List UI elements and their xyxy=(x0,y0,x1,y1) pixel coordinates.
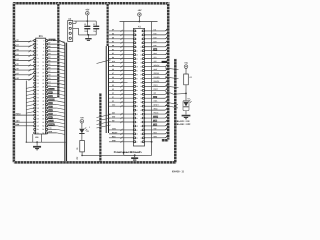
svg-text:34: 34 xyxy=(42,97,44,99)
svg-text:CSEL: CSEL xyxy=(153,100,157,102)
K1 lower left wires with labels xyxy=(15,114,34,127)
svg-text:39: 39 xyxy=(136,106,138,108)
svg-text:37: 37 xyxy=(136,102,138,104)
svg-text:D3: D3 xyxy=(112,33,114,35)
svg-text:25: 25 xyxy=(37,83,39,85)
wires crossing right walls lower xyxy=(165,102,178,108)
svg-text:34: 34 xyxy=(140,94,142,96)
svg-text:IOW: IOW xyxy=(16,124,20,126)
svg-text:2: 2 xyxy=(43,40,44,42)
svg-text:7: 7 xyxy=(136,42,137,44)
svg-text:B5: B5 xyxy=(48,50,50,52)
K1 right active-low labels xyxy=(48,88,55,127)
svg-text:46: 46 xyxy=(140,118,142,120)
svg-text:36: 36 xyxy=(42,101,44,103)
K2 pin circles xyxy=(69,22,71,39)
svg-text:100n: 100n xyxy=(84,31,88,33)
+5V supply symbol LED2 xyxy=(184,63,188,74)
K1 right pin circles xyxy=(46,40,48,134)
svg-text:26: 26 xyxy=(140,78,142,80)
svg-text:C3: C3 xyxy=(48,85,50,87)
svg-text:18: 18 xyxy=(140,62,142,64)
figure number xyxy=(172,170,185,173)
svg-text:BLACK = ON: BLACK = ON xyxy=(177,120,190,123)
svg-text:24: 24 xyxy=(140,74,142,76)
svg-text:8: 8 xyxy=(141,42,142,44)
svg-text:48: 48 xyxy=(140,122,142,124)
CF right active-low labels xyxy=(153,48,167,126)
svg-text:B3: B3 xyxy=(48,57,50,59)
svg-text:54: 54 xyxy=(140,134,142,136)
svg-text:WE: WE xyxy=(112,120,115,122)
svg-text:35: 35 xyxy=(136,98,138,100)
capacitor C1 xyxy=(84,21,90,35)
enclosure frame right outer edge xyxy=(174,59,177,163)
svg-text:+5V: +5V xyxy=(80,117,84,119)
K1 pin numbers xyxy=(37,40,44,134)
svg-text:31: 31 xyxy=(37,94,39,96)
connector K2 body xyxy=(68,20,73,41)
svg-text:D5: D5 xyxy=(112,37,114,39)
connector K1 label xyxy=(39,34,44,38)
svg-text:58: 58 xyxy=(140,141,142,143)
svg-text:15: 15 xyxy=(37,65,39,67)
svg-text:19: 19 xyxy=(37,72,39,74)
svg-text:C6: C6 xyxy=(48,74,50,76)
svg-text:B4: B4 xyxy=(48,52,50,55)
svg-text:A0: A0 xyxy=(16,39,18,42)
svg-text:5: 5 xyxy=(37,47,38,49)
svg-text:14: 14 xyxy=(42,62,44,64)
svg-text:49: 49 xyxy=(37,125,39,127)
K1 ground rail under body xyxy=(26,134,66,143)
svg-text:B1: B1 xyxy=(48,64,50,66)
ground return wire xyxy=(82,154,124,156)
svg-text:D7: D7 xyxy=(112,53,114,55)
svg-text:VS2: VS2 xyxy=(154,61,157,63)
svg-text:40: 40 xyxy=(42,108,44,110)
svg-text:17: 17 xyxy=(136,62,138,64)
svg-text:CS0: CS0 xyxy=(112,105,115,107)
svg-text:R2: R2 xyxy=(190,77,192,79)
svg-text:B0: B0 xyxy=(48,67,50,69)
capacitor C2 xyxy=(93,21,99,35)
svg-text:+5V: +5V xyxy=(85,9,89,11)
screen wall between IC1 and bus xyxy=(57,3,59,97)
svg-text:45: 45 xyxy=(136,118,138,120)
resistor R1 value xyxy=(77,157,79,160)
svg-text:30: 30 xyxy=(140,86,142,88)
svg-text:45: 45 xyxy=(37,118,39,120)
svg-text:A5: A5 xyxy=(16,63,18,66)
svg-text:+5V: +5V xyxy=(184,63,188,65)
svg-text:13: 13 xyxy=(136,54,138,56)
svg-text:RDY: RDY xyxy=(154,97,157,99)
LED2 note text xyxy=(177,120,191,126)
svg-text:21: 21 xyxy=(37,76,39,78)
svg-text:28: 28 xyxy=(140,82,142,84)
svg-text:41: 41 xyxy=(37,111,39,113)
svg-text:CS0: CS0 xyxy=(49,113,52,115)
svg-text:44: 44 xyxy=(42,115,44,117)
svg-text:22: 22 xyxy=(42,76,44,78)
svg-text:31: 31 xyxy=(136,90,138,92)
CF right signal wires with labels xyxy=(145,29,167,142)
svg-text:6: 6 xyxy=(141,39,142,41)
svg-text:B6: B6 xyxy=(48,46,50,48)
svg-text:D6: D6 xyxy=(112,45,114,47)
enclosure frame left edge xyxy=(13,3,16,162)
screen wall middle divider xyxy=(106,3,108,133)
enclosure frame right inner edge xyxy=(167,3,170,139)
svg-text:16: 16 xyxy=(140,58,142,60)
svg-text:4: 4 xyxy=(141,35,142,37)
svg-text:11: 11 xyxy=(136,50,138,52)
svg-text:D1: D1 xyxy=(87,131,89,133)
svg-text:RESET: RESET xyxy=(153,104,158,106)
CF right pin circles xyxy=(142,30,144,143)
svg-text:11: 11 xyxy=(37,58,39,60)
K1 part label under body xyxy=(35,137,39,139)
svg-text:42: 42 xyxy=(140,110,142,112)
svg-text:CS1: CS1 xyxy=(49,117,52,119)
svg-text:41: 41 xyxy=(136,110,138,112)
svg-text:CD2: CD2 xyxy=(153,132,156,134)
svg-text:40: 40 xyxy=(140,106,142,108)
svg-text:D0: D0 xyxy=(112,57,114,59)
LED D2 xyxy=(183,93,192,114)
CompactFlash connector label xyxy=(138,26,142,28)
resistor R1 xyxy=(77,140,85,156)
svg-text:3: 3 xyxy=(37,44,38,46)
svg-text:D1: D1 xyxy=(112,49,114,51)
svg-text:47: 47 xyxy=(37,122,39,124)
svg-text:RESET: RESET xyxy=(112,132,117,134)
svg-text:56: 56 xyxy=(140,138,142,140)
svg-text:53: 53 xyxy=(136,134,138,136)
svg-text:C1: C1 xyxy=(84,24,86,26)
svg-text:A6: A6 xyxy=(16,67,18,70)
svg-text:32: 32 xyxy=(140,90,142,92)
svg-text:D2: D2 xyxy=(112,41,114,43)
svg-text:13: 13 xyxy=(37,62,39,64)
svg-text:48: 48 xyxy=(42,122,44,124)
svg-text:50: 50 xyxy=(140,126,142,128)
svg-text:49: 49 xyxy=(136,126,138,128)
+5V supply symbol CompactFlash xyxy=(137,10,141,22)
svg-text:7: 7 xyxy=(37,51,38,53)
svg-text:16: 16 xyxy=(42,65,44,67)
svg-text:a: a xyxy=(89,126,90,128)
screen wall lower middle xyxy=(99,93,101,162)
net label middle xyxy=(89,126,90,128)
svg-text:6: 6 xyxy=(43,47,44,49)
svg-text:TX0: TX0 xyxy=(48,128,51,130)
resistor R2 xyxy=(184,74,192,93)
svg-text:54: 54 xyxy=(42,133,44,135)
CF pin numbers xyxy=(136,31,142,144)
signal wire to LED2 xyxy=(165,92,187,95)
svg-text:39: 39 xyxy=(37,108,39,110)
+5V supply symbol LED1 xyxy=(80,117,84,128)
svg-text:26: 26 xyxy=(42,83,44,85)
wires crossing lower middle divider xyxy=(96,114,110,128)
svg-text:23: 23 xyxy=(136,74,138,76)
CF card ground xyxy=(131,154,138,160)
wires crossing right walls xyxy=(165,68,179,88)
svg-text:POK0: POK0 xyxy=(16,114,21,116)
svg-text:D11: D11 xyxy=(154,29,157,31)
svg-text:A1: A1 xyxy=(16,43,18,46)
svg-text:1: 1 xyxy=(37,40,38,42)
connector K1 PC-side body xyxy=(36,38,46,134)
K1 right wires into bus trunk xyxy=(47,42,64,134)
enclosure frame top edge xyxy=(13,2,170,5)
ground symbol under LED2 xyxy=(182,115,191,120)
svg-text:VS1: VS1 xyxy=(154,57,157,59)
svg-text:CD2: CD2 xyxy=(154,53,157,55)
svg-text:52: 52 xyxy=(140,130,142,132)
svg-text:29: 29 xyxy=(37,90,39,92)
bus trunk left (double line) xyxy=(58,40,66,161)
CF card outline right edge junction xyxy=(151,141,153,143)
svg-text:22: 22 xyxy=(140,70,142,72)
svg-text:36: 36 xyxy=(140,98,142,100)
svg-text:42: 42 xyxy=(42,111,44,113)
svg-text:35: 35 xyxy=(37,101,39,103)
svg-text:10: 10 xyxy=(140,46,142,48)
ground symbol under K1 xyxy=(33,142,41,150)
svg-text:BVD1: BVD1 xyxy=(154,85,158,87)
svg-text:C4: C4 xyxy=(48,80,50,83)
svg-text:24: 24 xyxy=(42,79,44,81)
svg-text:CD1: CD1 xyxy=(154,49,157,51)
svg-text:17: 17 xyxy=(37,69,39,71)
svg-text:A4: A4 xyxy=(16,58,18,61)
svg-text:10u: 10u xyxy=(93,31,96,33)
svg-text:WP: WP xyxy=(153,93,156,95)
svg-text:R1: R1 xyxy=(77,147,79,149)
svg-text:IC1: IC1 xyxy=(39,34,44,38)
svg-text:47: 47 xyxy=(136,122,138,124)
svg-text:50: 50 xyxy=(42,125,44,127)
connector K2 label xyxy=(68,19,72,21)
svg-text:10: 10 xyxy=(42,54,44,56)
svg-text:B2: B2 xyxy=(48,60,50,62)
svg-text:IOW: IOW xyxy=(112,116,116,118)
svg-text:43: 43 xyxy=(37,115,39,117)
svg-text:29: 29 xyxy=(136,86,138,88)
svg-text:D12: D12 xyxy=(154,33,157,35)
svg-text:33: 33 xyxy=(136,94,138,96)
enclosure frame right inner edge bottom stub xyxy=(162,139,168,142)
svg-text:C5: C5 xyxy=(48,78,50,80)
svg-text:28: 28 xyxy=(42,86,44,88)
svg-text:3: 3 xyxy=(136,35,137,37)
svg-text:43: 43 xyxy=(136,114,138,116)
svg-text:A8: A8 xyxy=(16,77,18,80)
svg-text:51: 51 xyxy=(37,129,39,131)
svg-text:5: 5 xyxy=(136,39,137,41)
svg-text:27: 27 xyxy=(136,82,138,84)
K1 left pin circles xyxy=(34,40,36,134)
K1 left pin collector rail xyxy=(26,81,34,143)
+5V supply symbol top-left xyxy=(85,9,89,21)
svg-text:A2: A2 xyxy=(16,48,18,51)
svg-text:12: 12 xyxy=(140,50,142,52)
ground symbol under capacitors xyxy=(85,35,91,41)
svg-text:C7: C7 xyxy=(48,71,50,73)
svg-text:32: 32 xyxy=(42,94,44,96)
K1 RESET wire and label xyxy=(48,39,65,42)
svg-text:C2: C2 xyxy=(93,24,95,26)
svg-text:44: 44 xyxy=(140,114,142,116)
svg-text:9: 9 xyxy=(37,54,38,56)
svg-text:53: 53 xyxy=(37,133,39,135)
CompactFlash card outline xyxy=(119,22,157,156)
LED D1 xyxy=(79,127,89,140)
svg-text:14: 14 xyxy=(140,54,142,56)
svg-text:20: 20 xyxy=(42,72,44,74)
svg-text:12: 12 xyxy=(42,58,44,60)
wire crossing middle divider xyxy=(97,60,111,64)
K1 left address wires with labels xyxy=(13,39,34,81)
svg-text:37: 37 xyxy=(37,104,39,106)
svg-text:46: 46 xyxy=(42,118,44,120)
svg-text:20: 20 xyxy=(140,66,142,68)
svg-text:BLANK = OFF: BLANK = OFF xyxy=(177,123,191,126)
svg-text:+5V: +5V xyxy=(137,10,141,12)
svg-text:D2: D2 xyxy=(188,98,190,100)
svg-text:IOW: IOW xyxy=(49,96,53,98)
svg-text:BVD2: BVD2 xyxy=(153,89,157,91)
CompactFlash connector body xyxy=(133,28,144,146)
enclosure frame bottom edge xyxy=(14,161,176,164)
CF left signal wires with labels xyxy=(109,28,134,143)
svg-text:25: 25 xyxy=(136,78,138,80)
svg-text:B7: B7 xyxy=(48,42,50,44)
svg-text:55: 55 xyxy=(136,138,138,140)
svg-text:38: 38 xyxy=(140,102,142,104)
svg-text:RESET: RESET xyxy=(49,40,54,42)
supply rail wires xyxy=(73,20,97,36)
svg-text:33: 33 xyxy=(37,97,39,99)
svg-text:A7: A7 xyxy=(16,72,18,75)
svg-text:VS2: VS2 xyxy=(153,128,156,130)
svg-text:4: 4 xyxy=(43,44,44,46)
svg-text:INTRQ: INTRQ xyxy=(49,124,55,126)
svg-text:A3: A3 xyxy=(16,53,18,56)
svg-text:1: 1 xyxy=(136,31,137,33)
CF left pin circles xyxy=(134,30,136,143)
svg-text:D13: D13 xyxy=(154,37,157,39)
svg-text:D15: D15 xyxy=(154,45,157,47)
svg-text:18: 18 xyxy=(42,69,44,71)
svg-text:27: 27 xyxy=(37,86,39,88)
svg-text:19: 19 xyxy=(136,66,138,68)
svg-text:52: 52 xyxy=(42,129,44,131)
svg-text:51: 51 xyxy=(136,130,138,132)
svg-text:15: 15 xyxy=(136,58,138,60)
svg-text:030428 - 11: 030428 - 11 xyxy=(172,170,185,173)
svg-text:2: 2 xyxy=(141,31,142,33)
svg-text:9: 9 xyxy=(136,46,137,48)
svg-text:38: 38 xyxy=(42,104,44,106)
svg-text:30: 30 xyxy=(42,90,44,92)
svg-text:21: 21 xyxy=(136,70,138,72)
svg-text:8: 8 xyxy=(43,51,44,53)
svg-text:23: 23 xyxy=(37,79,39,81)
svg-text:2k2: 2k2 xyxy=(77,157,79,160)
svg-text:CSEL: CSEL xyxy=(112,128,116,130)
CompactFlash text label xyxy=(114,150,143,154)
svg-text:CompactFlash: CompactFlash xyxy=(114,150,143,154)
svg-text:57: 57 xyxy=(136,141,138,143)
svg-text:IORD16: IORD16 xyxy=(154,73,160,75)
